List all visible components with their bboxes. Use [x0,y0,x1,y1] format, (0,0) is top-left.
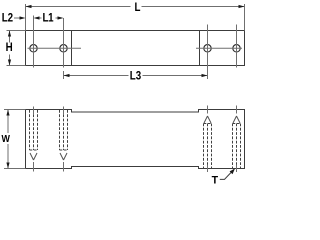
svg-text:H: H [6,42,13,55]
svg-text:L: L [135,1,141,14]
svg-text:L3: L3 [130,70,141,83]
svg-text:W: W [1,133,10,145]
svg-text:L2: L2 [2,12,13,25]
svg-text:L1: L1 [43,12,54,25]
svg-text:T: T [212,174,219,186]
